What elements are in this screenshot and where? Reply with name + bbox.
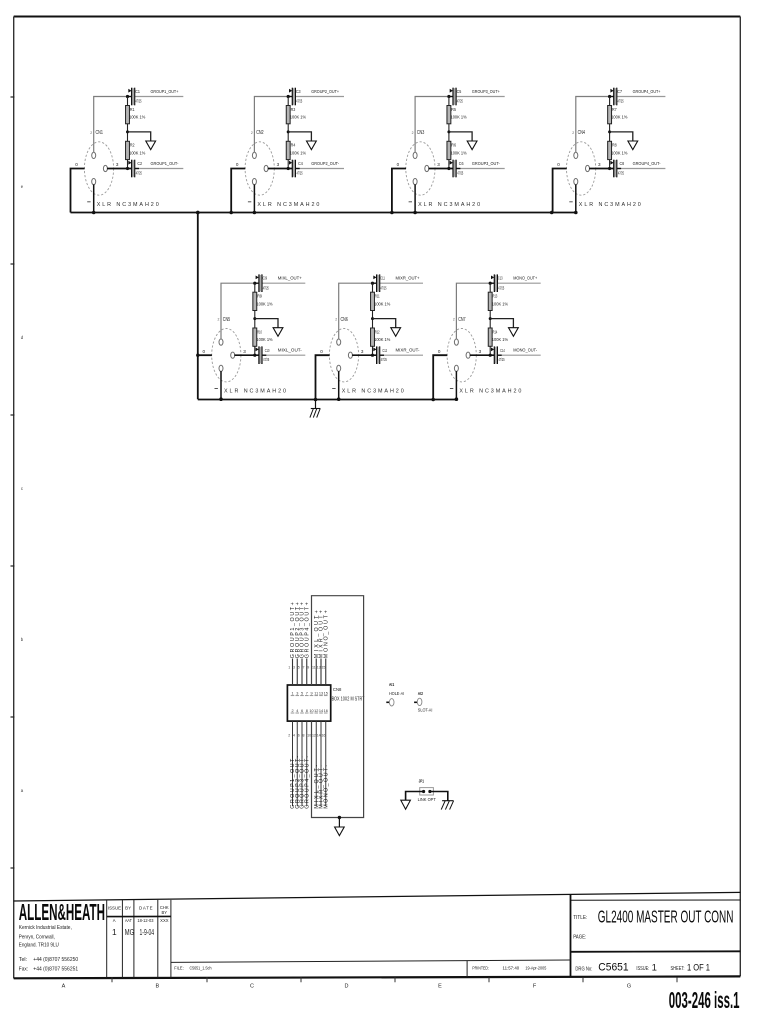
svg-text:100K 1%: 100K 1% (256, 337, 272, 342)
svg-text:47/25: 47/25 (136, 170, 142, 175)
jumper JP1 (420, 788, 434, 795)
capacitor C5 (449, 88, 456, 106)
svg-text:47/25: 47/25 (297, 170, 303, 175)
wire resistor chain (489, 283, 491, 355)
junction node top (126, 95, 129, 98)
svg-text:100K 1%: 100K 1% (492, 301, 508, 306)
resistor R4 (286, 141, 290, 159)
pin 1 tick (215, 388, 218, 390)
svg-text:C2: C2 (137, 161, 142, 166)
wire CN8 bottom pin 12 (315, 721, 317, 806)
title GL2400 MASTER OUT CONN (598, 907, 734, 927)
wire to ground (338, 818, 340, 828)
svg-text:47/25: 47/25 (457, 99, 463, 104)
svg-text:16: 16 (321, 734, 325, 738)
svg-text:A: A (113, 918, 116, 923)
wire to ground (288, 132, 311, 141)
svg-text:100K 1%: 100K 1% (290, 150, 306, 155)
svg-text:16: 16 (324, 709, 328, 713)
svg-text:BY: BY (125, 905, 131, 910)
svg-text:15: 15 (321, 666, 325, 670)
svg-text:2: 2 (90, 131, 92, 135)
svg-text:100K 1%: 100K 1% (129, 150, 145, 155)
svg-text:HOLE-AI: HOLE-AI (389, 691, 404, 696)
wire drop from row1 bus to row2 bus (196, 211, 200, 215)
connector CN8 BOX 10X2 M STRT (287, 685, 330, 721)
net label MIXR_OUT- (rotated) (319, 765, 325, 809)
capacitor C8 (610, 160, 621, 178)
junction node mid (126, 130, 129, 133)
capacitor C2 (128, 160, 139, 178)
svg-text:C5: C5 (457, 89, 462, 94)
svg-text:3: 3 (116, 162, 119, 167)
svg-text:0: 0 (397, 162, 400, 167)
svg-text:ISSUE:: ISSUE: (636, 966, 649, 972)
net label GROUP3_OUT- (rotated) (300, 756, 306, 809)
svg-text:3: 3 (243, 349, 246, 354)
svg-text:100K 1%: 100K 1% (611, 115, 627, 120)
junction node pin1/bus (253, 211, 257, 215)
svg-text:PAGE:: PAGE: (573, 934, 586, 940)
wire CN4 pin2 up to junction (576, 97, 610, 153)
svg-text:R6: R6 (451, 143, 456, 148)
XLR connector CN4 (567, 142, 596, 195)
junction node top (447, 95, 450, 98)
logo ALLEN&HEATH (19, 899, 105, 925)
svg-text:0: 0 (203, 349, 206, 354)
svg-text:47/25: 47/25 (135, 99, 141, 104)
svg-text:14: 14 (319, 709, 323, 713)
svg-text:47/25: 47/25 (296, 99, 302, 104)
svg-text:2: 2 (288, 734, 290, 738)
wire CN1 pin3 (107, 168, 132, 170)
wire CN8 top pin 11 (315, 659, 317, 686)
svg-text:+44 (0)8707 556251: +44 (0)8707 556251 (33, 966, 78, 972)
svg-text:LINK OPT: LINK OPT (418, 797, 436, 802)
wire CN8 top pin 15 (325, 659, 327, 686)
wire CN8 top pin 7 (306, 659, 308, 686)
junction node top (608, 95, 611, 98)
wire CN8 bottom pin 14 (320, 721, 322, 806)
capacitor C10 (256, 346, 267, 364)
capacitor C13 (490, 274, 497, 292)
XLR connector CN3 (406, 142, 435, 195)
wire resistor chain (127, 97, 129, 169)
svg-text:XXX: XXX (160, 918, 169, 923)
svg-text:1: 1 (112, 927, 117, 937)
wire net GROUP4_OUT+ stub (617, 96, 666, 98)
resistor R6 (447, 141, 451, 159)
XLR connector CN1 (84, 142, 113, 195)
svg-text:CN5: CN5 (223, 317, 231, 323)
svg-text:2: 2 (218, 318, 220, 322)
svg-text:A: A (62, 984, 66, 990)
wire net GROUP3_OUT+ stub (456, 96, 505, 98)
svg-text:PRINTED:: PRINTED: (472, 966, 489, 971)
svg-text:GROUP2_OUT-: GROUP2_OUT- (311, 161, 339, 167)
wire CN8 bottom pin 4 (296, 721, 298, 806)
svg-text:C9: C9 (263, 276, 268, 281)
resistor R8 (608, 141, 612, 159)
svg-text:DRG No:: DRG No: (575, 967, 592, 973)
svg-text:0: 0 (557, 162, 560, 167)
svg-text:2: 2 (412, 131, 414, 135)
svg-text:C7: C7 (617, 89, 622, 94)
junction node bus row2 (314, 398, 318, 402)
svg-text:6: 6 (301, 709, 303, 713)
ground symbol below CN8 (335, 827, 345, 836)
net label GROUP1_OUT- (rotated) (290, 756, 296, 809)
wire CN8 top pin 13 (320, 659, 322, 686)
svg-text:8: 8 (302, 734, 304, 738)
wire ground bus row 1 (71, 212, 576, 214)
net label MONO_OUT- (rotated) (323, 765, 329, 809)
wire resistor chain (287, 97, 289, 169)
capacitor C9 (255, 274, 262, 292)
svg-text:G: G (627, 984, 631, 990)
XLR connector CN7 (447, 329, 476, 382)
svg-text:2: 2 (291, 709, 293, 713)
junction node ground loop (338, 816, 341, 819)
svg-text:3: 3 (598, 162, 601, 167)
net label GROUP1_OUT+ (rotated) (290, 602, 296, 658)
svg-text:R13: R13 (493, 294, 498, 299)
svg-text:47/25: 47/25 (498, 285, 504, 290)
svg-text:5: 5 (301, 692, 303, 696)
svg-text:5: 5 (298, 666, 300, 670)
net label MIXR_OUT+ (rotated) (319, 610, 325, 658)
resistor R7 (608, 106, 612, 124)
junction node mid (371, 317, 374, 320)
svg-text:E: E (438, 984, 442, 990)
wire CN7 pin3 (470, 354, 495, 356)
svg-text:B: B (155, 984, 159, 990)
capacitor C1 (128, 88, 135, 106)
svg-text:AI2: AI2 (418, 691, 424, 696)
svg-text:2: 2 (251, 131, 253, 135)
svg-text:C13: C13 (498, 276, 503, 281)
ground symbol (307, 141, 317, 150)
svg-text:R4: R4 (291, 143, 296, 148)
junction node mid (287, 130, 290, 133)
svg-text:100K 1%: 100K 1% (451, 115, 467, 120)
svg-text:MONO_OUT+: MONO_OUT+ (323, 610, 329, 658)
net label MIXL_OUT- (rotated) (314, 765, 320, 809)
svg-text:3: 3 (437, 162, 440, 167)
wire CN4 pin1 to bus (575, 184, 577, 212)
title block (14, 892, 741, 977)
pin 1 tick (87, 201, 90, 203)
svg-text:12: 12 (312, 734, 316, 738)
svg-text:47/25: 47/25 (618, 99, 624, 104)
svg-text:1-9-04: 1-9-04 (140, 927, 155, 937)
pin 1 tick (569, 201, 572, 203)
junction node bus row1 (229, 211, 233, 215)
net label MIXL_OUT+ (rotated) (314, 610, 320, 658)
wire CN2 pin2 up to junction (254, 97, 288, 153)
junction node bus row1 (390, 211, 394, 215)
chassis ground on row2 bus (310, 400, 320, 418)
wire resistor chain (254, 283, 256, 355)
junction node top (489, 282, 492, 285)
wire CN8 bottom pin 16 (325, 721, 327, 806)
svg-text:100K 1%: 100K 1% (256, 301, 272, 306)
svg-text:R5: R5 (451, 107, 456, 112)
svg-text:R3: R3 (291, 107, 296, 112)
wire CN5 pin3 (234, 354, 259, 356)
wire CN8 top pin 3 (296, 659, 298, 686)
svg-text:0: 0 (438, 349, 441, 354)
svg-text:47/25: 47/25 (381, 357, 387, 362)
svg-text:13: 13 (319, 692, 323, 696)
svg-text:R1: R1 (130, 107, 135, 112)
junction node bottom of chain (371, 354, 374, 357)
wire net MONO_OUT- stub (497, 354, 541, 356)
svg-text:47/25: 47/25 (499, 357, 505, 362)
fiducial AI2 (414, 698, 422, 705)
wire resistor chain (609, 97, 611, 169)
ground symbol (509, 328, 519, 337)
svg-text:0: 0 (75, 162, 78, 167)
svg-text:13: 13 (317, 666, 321, 670)
svg-text:Kernick Industrial Estate,: Kernick Industrial Estate, (19, 925, 72, 931)
svg-text:47/25: 47/25 (618, 170, 624, 175)
svg-text:2: 2 (572, 131, 574, 135)
svg-text:C8: C8 (620, 161, 625, 166)
svg-text:Penryn, Cornwall,: Penryn, Cornwall, (19, 934, 55, 940)
capacitor C4 (289, 160, 300, 178)
svg-text:R2: R2 (130, 143, 135, 148)
junction node bus row2 (431, 398, 435, 402)
net label MONO_OUT+ (rotated) (323, 610, 329, 658)
wire net GROUP3_OUT- stub (456, 168, 505, 170)
wire CN1 shell pin 0 to bus (71, 169, 85, 213)
svg-text:GROUP4_OUT-: GROUP4_OUT- (304, 756, 310, 809)
svg-text:3: 3 (296, 692, 298, 696)
wire CN6 pin3 (352, 354, 377, 356)
wire CN3 pin2 up to junction (415, 97, 449, 153)
svg-text:4: 4 (293, 734, 295, 738)
svg-text:9: 9 (307, 666, 309, 670)
svg-text:GROUP1_OUT-: GROUP1_OUT- (151, 161, 179, 167)
wire JP1 left to ground (406, 792, 424, 801)
svg-text:GROUP4_OUT+: GROUP4_OUT+ (633, 89, 661, 95)
junction node mid (253, 317, 256, 320)
junction node bottom of chain (287, 167, 290, 170)
capacitor C12 (373, 346, 384, 364)
pin 1 tick (450, 388, 453, 390)
svg-text:100K 1%: 100K 1% (492, 337, 508, 342)
XLR connector CN6 (329, 329, 358, 382)
pin 1 tick (409, 201, 412, 203)
junction node top (371, 282, 374, 285)
net label GROUP2_OUT+ (rotated) (295, 602, 301, 658)
svg-text:CN1: CN1 (96, 130, 104, 136)
resistor R12 (371, 328, 375, 346)
svg-text:1: 1 (652, 962, 657, 973)
fiducial AI1 (386, 699, 394, 706)
resistor R11 (371, 292, 375, 310)
net label GROUP4_OUT- (rotated) (304, 756, 310, 809)
wire CN5 pin1 to bus (220, 371, 222, 399)
ground symbol (391, 328, 401, 337)
svg-text:R11: R11 (375, 294, 380, 299)
wire CN4 shell pin 0 to bus (553, 169, 567, 213)
svg-text:R10: R10 (257, 329, 262, 334)
svg-text:R14: R14 (493, 329, 498, 334)
ground symbol JP1 (401, 800, 411, 809)
svg-text:GROUP1_OUT+: GROUP1_OUT+ (151, 89, 179, 95)
svg-text:CN7: CN7 (458, 317, 466, 323)
wire CN5 pin2 up to junction (221, 283, 255, 339)
svg-text:MIXR_OUT-: MIXR_OUT- (396, 348, 420, 354)
svg-text:C5651: C5651 (598, 962, 629, 974)
svg-text:AI1: AI1 (389, 682, 395, 687)
junction node bottom of chain (608, 167, 611, 170)
svg-text:R8: R8 (612, 143, 617, 148)
chassis ground JP1 (441, 801, 453, 810)
svg-text:C11: C11 (380, 276, 385, 281)
wire CN5 shell pin 0 to bus (198, 354, 212, 356)
net label GROUP2_OUT- (rotated) (295, 756, 301, 809)
wire CN6 shell pin 0 to bus (316, 355, 330, 399)
wire net GROUP1_OUT- stub (135, 168, 184, 170)
svg-text:100K 1%: 100K 1% (451, 150, 467, 155)
resistor R5 (447, 106, 451, 124)
wire net GROUP1_OUT+ stub (135, 96, 184, 98)
svg-text:BY: BY (162, 910, 168, 915)
svg-text:DATE: DATE (139, 905, 153, 910)
wire CN8 bottom pin 8 (306, 721, 308, 806)
wire to ground (255, 319, 278, 328)
wire CN8 top pin 1 (292, 659, 294, 686)
svg-text:MG: MG (125, 927, 134, 937)
svg-text:2: 2 (335, 318, 337, 322)
ground symbol (273, 328, 283, 337)
resistor R13 (488, 292, 492, 310)
wire CN2 pin3 (268, 168, 293, 170)
junction node pin1/bus (92, 211, 96, 215)
capacitor C14 (491, 346, 502, 364)
wire net MIXR_OUT+ stub (380, 282, 424, 284)
wire net MONO_OUT+ stub (497, 282, 541, 284)
svg-text:11: 11 (312, 666, 316, 670)
svg-text:003-246 iss.1: 003-246 iss.1 (669, 987, 740, 1013)
svg-text:Tel:: Tel: (19, 957, 28, 963)
XLR connector CN5 (212, 329, 241, 382)
XLR connector CN2 (245, 142, 274, 195)
svg-text:TITLE:: TITLE: (573, 915, 587, 921)
wire resistor chain (448, 97, 450, 169)
pin 1 tick (248, 201, 251, 203)
svg-text:R12: R12 (375, 329, 380, 334)
wire CN3 pin1 to bus (414, 184, 416, 212)
wire CN7 pin1 to bus (455, 371, 457, 399)
svg-text:England. TR10 9LU: England. TR10 9LU (19, 943, 59, 949)
junction node pin1/bus (219, 397, 223, 401)
svg-text:100K 1%: 100K 1% (611, 150, 627, 155)
svg-text:7: 7 (302, 666, 304, 670)
svg-text:FILE:: FILE: (174, 966, 184, 971)
svg-text:9: 9 (310, 692, 312, 696)
svg-text:100K 1%: 100K 1% (290, 115, 306, 120)
capacitor C3 (288, 88, 295, 106)
svg-text:GROUP3_OUT-: GROUP3_OUT- (472, 161, 500, 167)
svg-text:MIXR_OUT+: MIXR_OUT+ (396, 276, 420, 282)
svg-text:SHEET:: SHEET: (671, 966, 685, 972)
svg-text:15: 15 (324, 692, 328, 696)
junction node pin1/bus (413, 211, 417, 215)
wire to ground (610, 132, 633, 141)
wire CN8 pin 9/10 ground loop (312, 596, 364, 818)
svg-text:C12: C12 (382, 348, 387, 353)
svg-text:C10: C10 (265, 348, 270, 353)
wire net GROUP2_OUT+ stub (295, 96, 344, 98)
svg-text:6: 6 (298, 734, 300, 738)
junction node mid (489, 317, 492, 320)
svg-text:11: 11 (314, 692, 318, 696)
svg-text:11:57:40: 11:57:40 (503, 966, 520, 971)
wire JP1 right to chassis (430, 792, 448, 801)
svg-text:MONO_OUT-: MONO_OUT- (323, 765, 329, 809)
svg-text:2: 2 (453, 318, 455, 322)
capacitor C7 (610, 88, 617, 106)
svg-text:1 OF 1: 1 OF 1 (687, 962, 710, 973)
pin 1 tick (332, 388, 335, 390)
resistor R14 (488, 328, 492, 346)
svg-text:GROUP4_OUT-: GROUP4_OUT- (633, 161, 661, 167)
svg-text:4: 4 (296, 709, 298, 713)
svg-text:AAT: AAT (125, 918, 132, 923)
svg-text:3: 3 (361, 349, 364, 354)
svg-text:C14: C14 (500, 348, 505, 353)
svg-text:1: 1 (288, 666, 290, 670)
svg-text:GROUP4_OUT+: GROUP4_OUT+ (304, 602, 310, 658)
svg-text:47/25: 47/25 (380, 285, 386, 290)
svg-text:GL2400 MASTER OUT CONN: GL2400 MASTER OUT CONN (598, 907, 734, 927)
svg-text:47/25: 47/25 (263, 285, 269, 290)
svg-text:1: 1 (291, 692, 293, 696)
ground symbol (146, 141, 156, 150)
resistor R10 (253, 328, 257, 346)
svg-text:ALLEN&HEATH: ALLEN&HEATH (19, 899, 105, 925)
svg-text:GROUP3_OUT+: GROUP3_OUT+ (472, 89, 500, 95)
svg-text:MIXL_OUT-: MIXL_OUT- (278, 348, 302, 354)
ground symbol (467, 141, 477, 150)
svg-text:C4: C4 (298, 161, 303, 166)
wire CN1 pin2 up to junction (94, 97, 128, 153)
wire to ground (128, 132, 151, 141)
svg-text:GROUP2_OUT+: GROUP2_OUT+ (311, 89, 339, 95)
svg-text:0: 0 (236, 162, 239, 167)
wire net MIXR_OUT- stub (380, 354, 424, 356)
svg-text:C: C (250, 984, 254, 990)
svg-text:+44 (0)8707 556250: +44 (0)8707 556250 (33, 957, 78, 963)
resistor R3 (286, 106, 290, 124)
svg-text:BOX 10X2 M STRT: BOX 10X2 M STRT (332, 697, 365, 703)
svg-text:47/25: 47/25 (457, 170, 463, 175)
svg-text:CN6: CN6 (341, 317, 349, 323)
net label GROUP4_OUT+ (rotated) (304, 602, 310, 658)
junction node bottom of chain (489, 354, 492, 357)
resistor R2 (126, 141, 130, 159)
svg-text:100K 1%: 100K 1% (374, 337, 390, 342)
wire CN8 top pin 5 (301, 659, 303, 686)
svg-text:14: 14 (317, 734, 321, 738)
wire CN7 shell pin 0 to bus (433, 355, 447, 399)
svg-text:D: D (345, 984, 349, 990)
svg-text:CN2: CN2 (256, 130, 264, 136)
